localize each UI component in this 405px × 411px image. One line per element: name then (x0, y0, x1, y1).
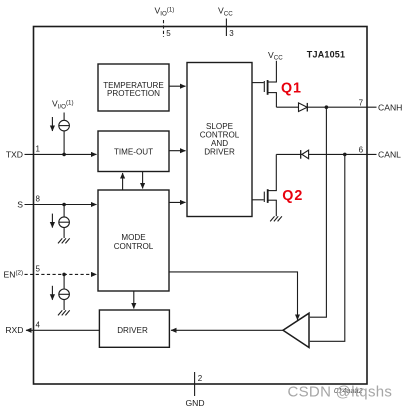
pin 5 VIO dashed pin line (top) (155, 6, 175, 39)
svg-text:5: 5 (36, 265, 41, 274)
svg-text:VIO(1): VIO(1) (155, 6, 175, 18)
block DRIVER (99, 310, 169, 347)
wire CANL tap to receiver (310, 154, 345, 341)
wire TIME-OUT to MODE CONTROL (down arrow) (142, 171, 144, 188)
svg-text:TIME-OUT: TIME-OUT (114, 147, 153, 156)
svg-text:DRIVER: DRIVER (117, 326, 148, 335)
svg-text:Q1: Q1 (281, 81, 302, 97)
node CANL junction dot (343, 153, 347, 157)
op-amp U1 receiver comparator (283, 313, 309, 347)
pin 1 TXD input wire (6, 145, 97, 160)
svg-text:CSDN @ltqshs: CSDN @ltqshs (288, 384, 393, 401)
svg-text:VCC: VCC (268, 50, 283, 62)
outer border frame of IC (34, 27, 368, 385)
block MODE CONTROL (98, 190, 169, 291)
pin 8 S input wire (17, 195, 96, 210)
pin 5 EN dashed input wire (3, 265, 96, 280)
wire CANH tap to receiver (310, 107, 327, 317)
svg-text:PROTECTION: PROTECTION (107, 89, 160, 98)
pin 2 GND pin line (bottom) (186, 372, 205, 408)
ground (below Q2) (270, 216, 282, 221)
svg-text:1: 1 (36, 145, 41, 154)
wire TEMPERATURE PROTECTION to SLOPE CONTROL (169, 85, 186, 87)
diode D1 (to CANH) (299, 103, 308, 112)
svg-text:CONTROL: CONTROL (114, 242, 154, 251)
wire MODE CONTROL to receiver enable (169, 272, 298, 320)
pin 4 RXD output wire (5, 321, 99, 336)
svg-text:2: 2 (198, 374, 203, 383)
wire MODE CONTROL to SLOPE CONTROL (169, 201, 186, 203)
node TXD junction dot (62, 153, 66, 157)
svg-text:VI/O(1): VI/O(1) (52, 99, 74, 111)
svg-text:S: S (17, 200, 23, 210)
svg-text:6: 6 (359, 146, 364, 155)
svg-text:CANL: CANL (378, 150, 401, 160)
wire CANH line (276, 106, 376, 108)
svg-text:8: 8 (36, 195, 41, 204)
svg-text:MODE: MODE (121, 233, 146, 242)
svg-text:4: 4 (36, 321, 41, 330)
block TEMPERATURE PROTECTION (98, 64, 169, 111)
ground (below I3) (58, 310, 70, 315)
wire receiver to DRIVER (171, 329, 283, 331)
pin 3 VCC pin line (top) (218, 6, 234, 39)
diode D2 (to CANL) (301, 150, 309, 159)
svg-text:3: 3 (229, 29, 234, 38)
wire TIME-OUT to SLOPE CONTROL (169, 150, 186, 152)
svg-text:EN(2): EN(2) (3, 269, 23, 279)
ground (below I2) (58, 238, 70, 243)
svg-text:DRIVER: DRIVER (204, 147, 235, 156)
block SLOPE CONTROL AND DRIVER (187, 63, 252, 217)
wire MODE CONTROL to TIME-OUT (up arrow) (122, 173, 124, 190)
svg-text:7: 7 (359, 99, 364, 108)
svg-text:Q2: Q2 (282, 188, 303, 204)
wire MODE CONTROL to DRIVER (down arrow) (133, 291, 135, 309)
current source I2 (on S input) (52, 205, 69, 239)
current source I3 (on EN input) (52, 274, 69, 310)
svg-text:RXD: RXD (5, 325, 23, 335)
svg-text:TJA1051: TJA1051 (307, 50, 345, 60)
transistor Q2 (low-side MOSFET) (252, 154, 277, 216)
current source I1 (VIO pull-up on TXD) (52, 99, 74, 155)
node EN junction dot (62, 273, 66, 277)
node S junction dot (62, 203, 66, 207)
svg-text:TXD: TXD (6, 149, 23, 159)
svg-text:CANH: CANH (378, 102, 402, 112)
wire CANL line (276, 153, 376, 155)
svg-text:GND: GND (186, 398, 205, 408)
node CANH junction dot (325, 105, 329, 109)
transistor Q1 (high-side MOSFET) (252, 61, 277, 107)
block TIME-OUT (98, 131, 169, 172)
svg-text:5: 5 (166, 29, 171, 38)
svg-text:VCC: VCC (218, 6, 233, 18)
